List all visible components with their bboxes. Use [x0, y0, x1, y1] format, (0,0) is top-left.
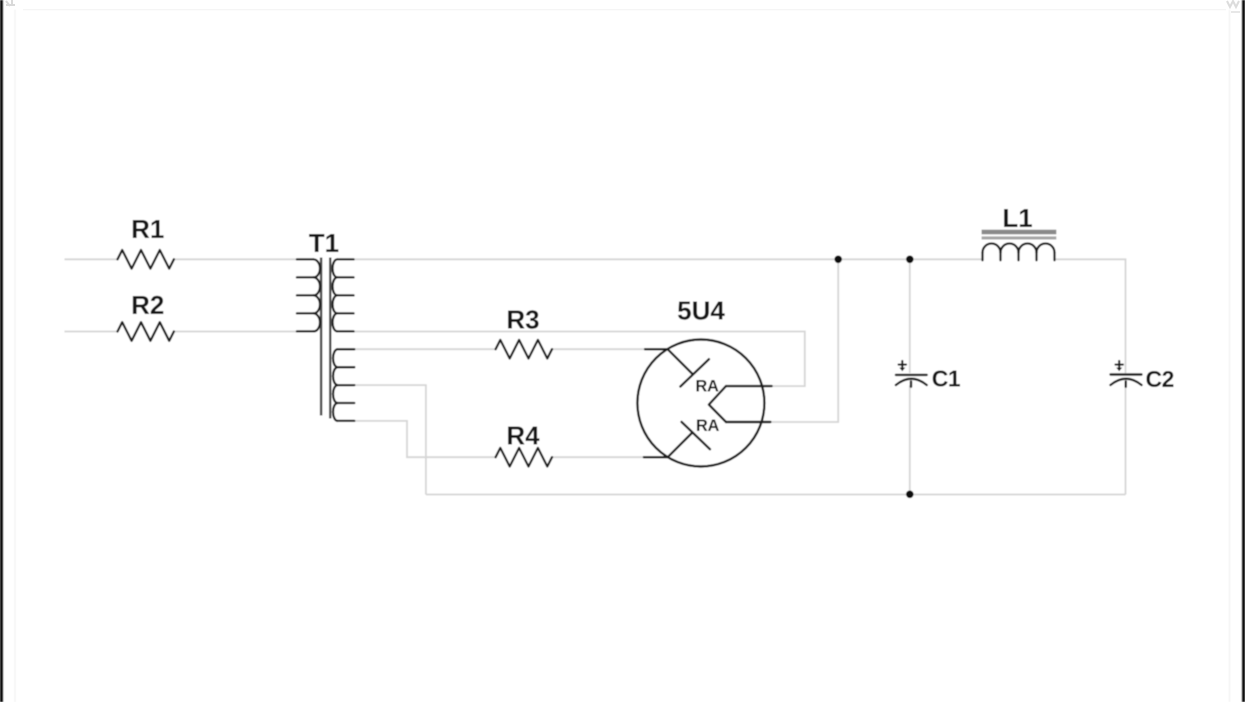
wire: R2 to T1 primary bottom: [174, 331, 298, 333]
inductor L1: [982, 203, 1057, 260]
node B junction dot: [906, 255, 914, 263]
resistor R3: [496, 340, 552, 359]
wire: T1 secondary bottom to R4: [354, 421, 495, 457]
rectifier tube U1 5U4: [637, 296, 771, 467]
wire: R3 to tube anode 1: [552, 348, 646, 350]
svg-text:5U4: 5U4: [677, 296, 725, 326]
wire: C2 bottom lead: [1125, 386, 1127, 495]
tube anode 1 plate line: [668, 349, 693, 374]
capacitor C1: [896, 361, 961, 392]
wire: R1 left lead: [65, 258, 118, 260]
resistor R2: [118, 322, 174, 341]
node C junction dot: [906, 491, 914, 499]
svg-text:R2: R2: [131, 290, 164, 320]
tube filament chevron: [709, 386, 726, 422]
wire: top B+ bus from T1 secondary to L1: [354, 258, 983, 260]
T1 primary winding: [297, 259, 320, 331]
wire: R4 to tube anode 2: [552, 456, 644, 458]
svg-text:RA: RA: [695, 377, 719, 395]
transformer T1: [297, 228, 354, 421]
T1 core bar right: [329, 258, 331, 419]
resistor R1: [118, 250, 174, 269]
tube pin: cathode top lead: [726, 385, 772, 387]
L1 core bar lower: [982, 236, 1057, 239]
tube cathode bar 1: [680, 359, 709, 386]
T1 secondary upper winding: [333, 259, 354, 331]
svg-text:C2: C2: [1146, 366, 1174, 392]
wire: tube cathode bottom to top bus node A: [770, 259, 838, 422]
svg-text:L1: L1: [1002, 203, 1032, 233]
wire: C1 top lead: [909, 259, 911, 373]
tube pin: anode 1 lead: [645, 348, 668, 350]
wire: R2 left lead: [65, 331, 118, 333]
svg-text:R4: R4: [506, 421, 540, 451]
faint top frame line: [23, 9, 1226, 11]
wire: T1 secondary center tap down to bottom bus: [354, 385, 426, 494]
svg-text:RA: RA: [696, 417, 720, 435]
wire: C1 bottom lead: [909, 386, 911, 495]
svg-text:R1: R1: [131, 214, 164, 244]
svg-text:R3: R3: [506, 305, 539, 335]
tube pin: cathode bottom lead: [726, 421, 770, 423]
svg-text:T1: T1: [309, 228, 339, 258]
T1 core bar left: [320, 258, 322, 416]
node A junction dot: [834, 255, 842, 263]
tube anode 2 plate line: [668, 432, 693, 457]
C2 plus sign: [1116, 361, 1123, 368]
C1 plus sign: [899, 361, 906, 368]
T1 secondary lower winding: [333, 349, 354, 421]
wire: T1 secondary upper tap to tube cathode top (via right drop): [354, 332, 805, 387]
wire: L1 to C2 top corner: [1055, 259, 1126, 373]
wire: R1 to T1 primary top: [174, 258, 298, 260]
capacitor C2: [1111, 361, 1174, 392]
svg-text:C1: C1: [932, 366, 961, 392]
wire: T1 to R3: [354, 348, 495, 350]
L1 core bar upper: [982, 230, 1057, 235]
wire: bottom return bus: [426, 494, 1126, 496]
tube cathode bar 2: [682, 422, 711, 449]
tube pin: anode 2 lead: [644, 456, 668, 458]
resistor R4: [496, 448, 552, 467]
